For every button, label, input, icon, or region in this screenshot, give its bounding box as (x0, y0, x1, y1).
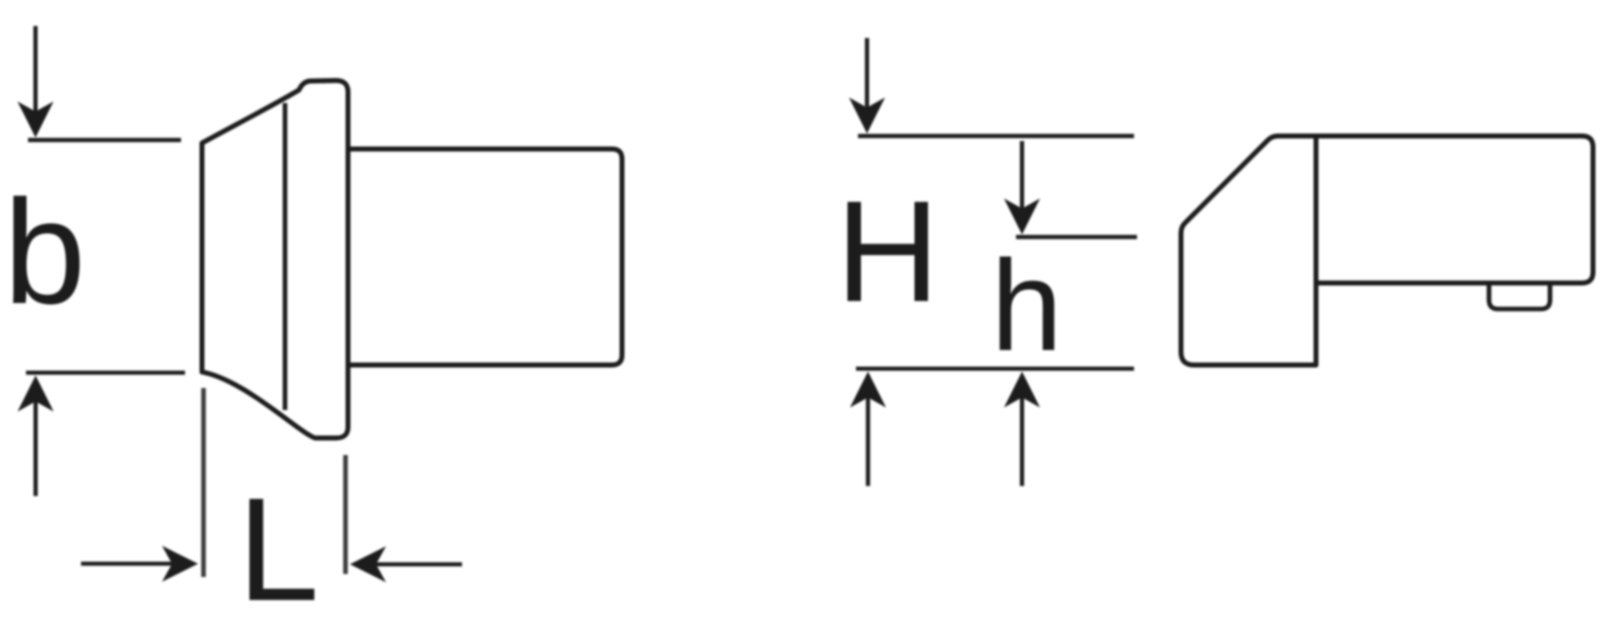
svg-text:b: b (4, 170, 86, 335)
arrow up (H bottom) (866, 383, 870, 486)
arrow down (b top) (33, 26, 37, 126)
dimension line b top (28, 138, 181, 142)
arrow down (H top) (865, 38, 869, 122)
arrow down (h top) (1020, 141, 1024, 223)
right view: release button tab (1489, 283, 1550, 309)
left view: plug-in spigot outer outline (202, 81, 348, 439)
left view: square drive body (rounded rectangle) (348, 149, 622, 365)
right view: wrench head (pentagon with chamfer) (1181, 136, 1316, 365)
dimension line h top (1016, 235, 1137, 239)
svg-text:H: H (836, 171, 940, 332)
dimension line H top (858, 134, 1134, 138)
dimension line b bottom (26, 371, 185, 375)
arrow right (L dim) (81, 562, 187, 566)
svg-text:L: L (237, 468, 319, 628)
arrow left (L dim) (361, 562, 462, 566)
extension line right (L dim) (343, 455, 348, 574)
right view: handle body (1316, 136, 1593, 283)
arrow up (b bottom) (33, 387, 37, 496)
left view: collar inner edge line (283, 103, 288, 410)
extension line left (L dim) (201, 388, 206, 577)
dimension line bottom (H/h) (856, 367, 1134, 371)
arrow up (h bottom) (1020, 383, 1024, 486)
svg-text:h: h (991, 234, 1063, 378)
